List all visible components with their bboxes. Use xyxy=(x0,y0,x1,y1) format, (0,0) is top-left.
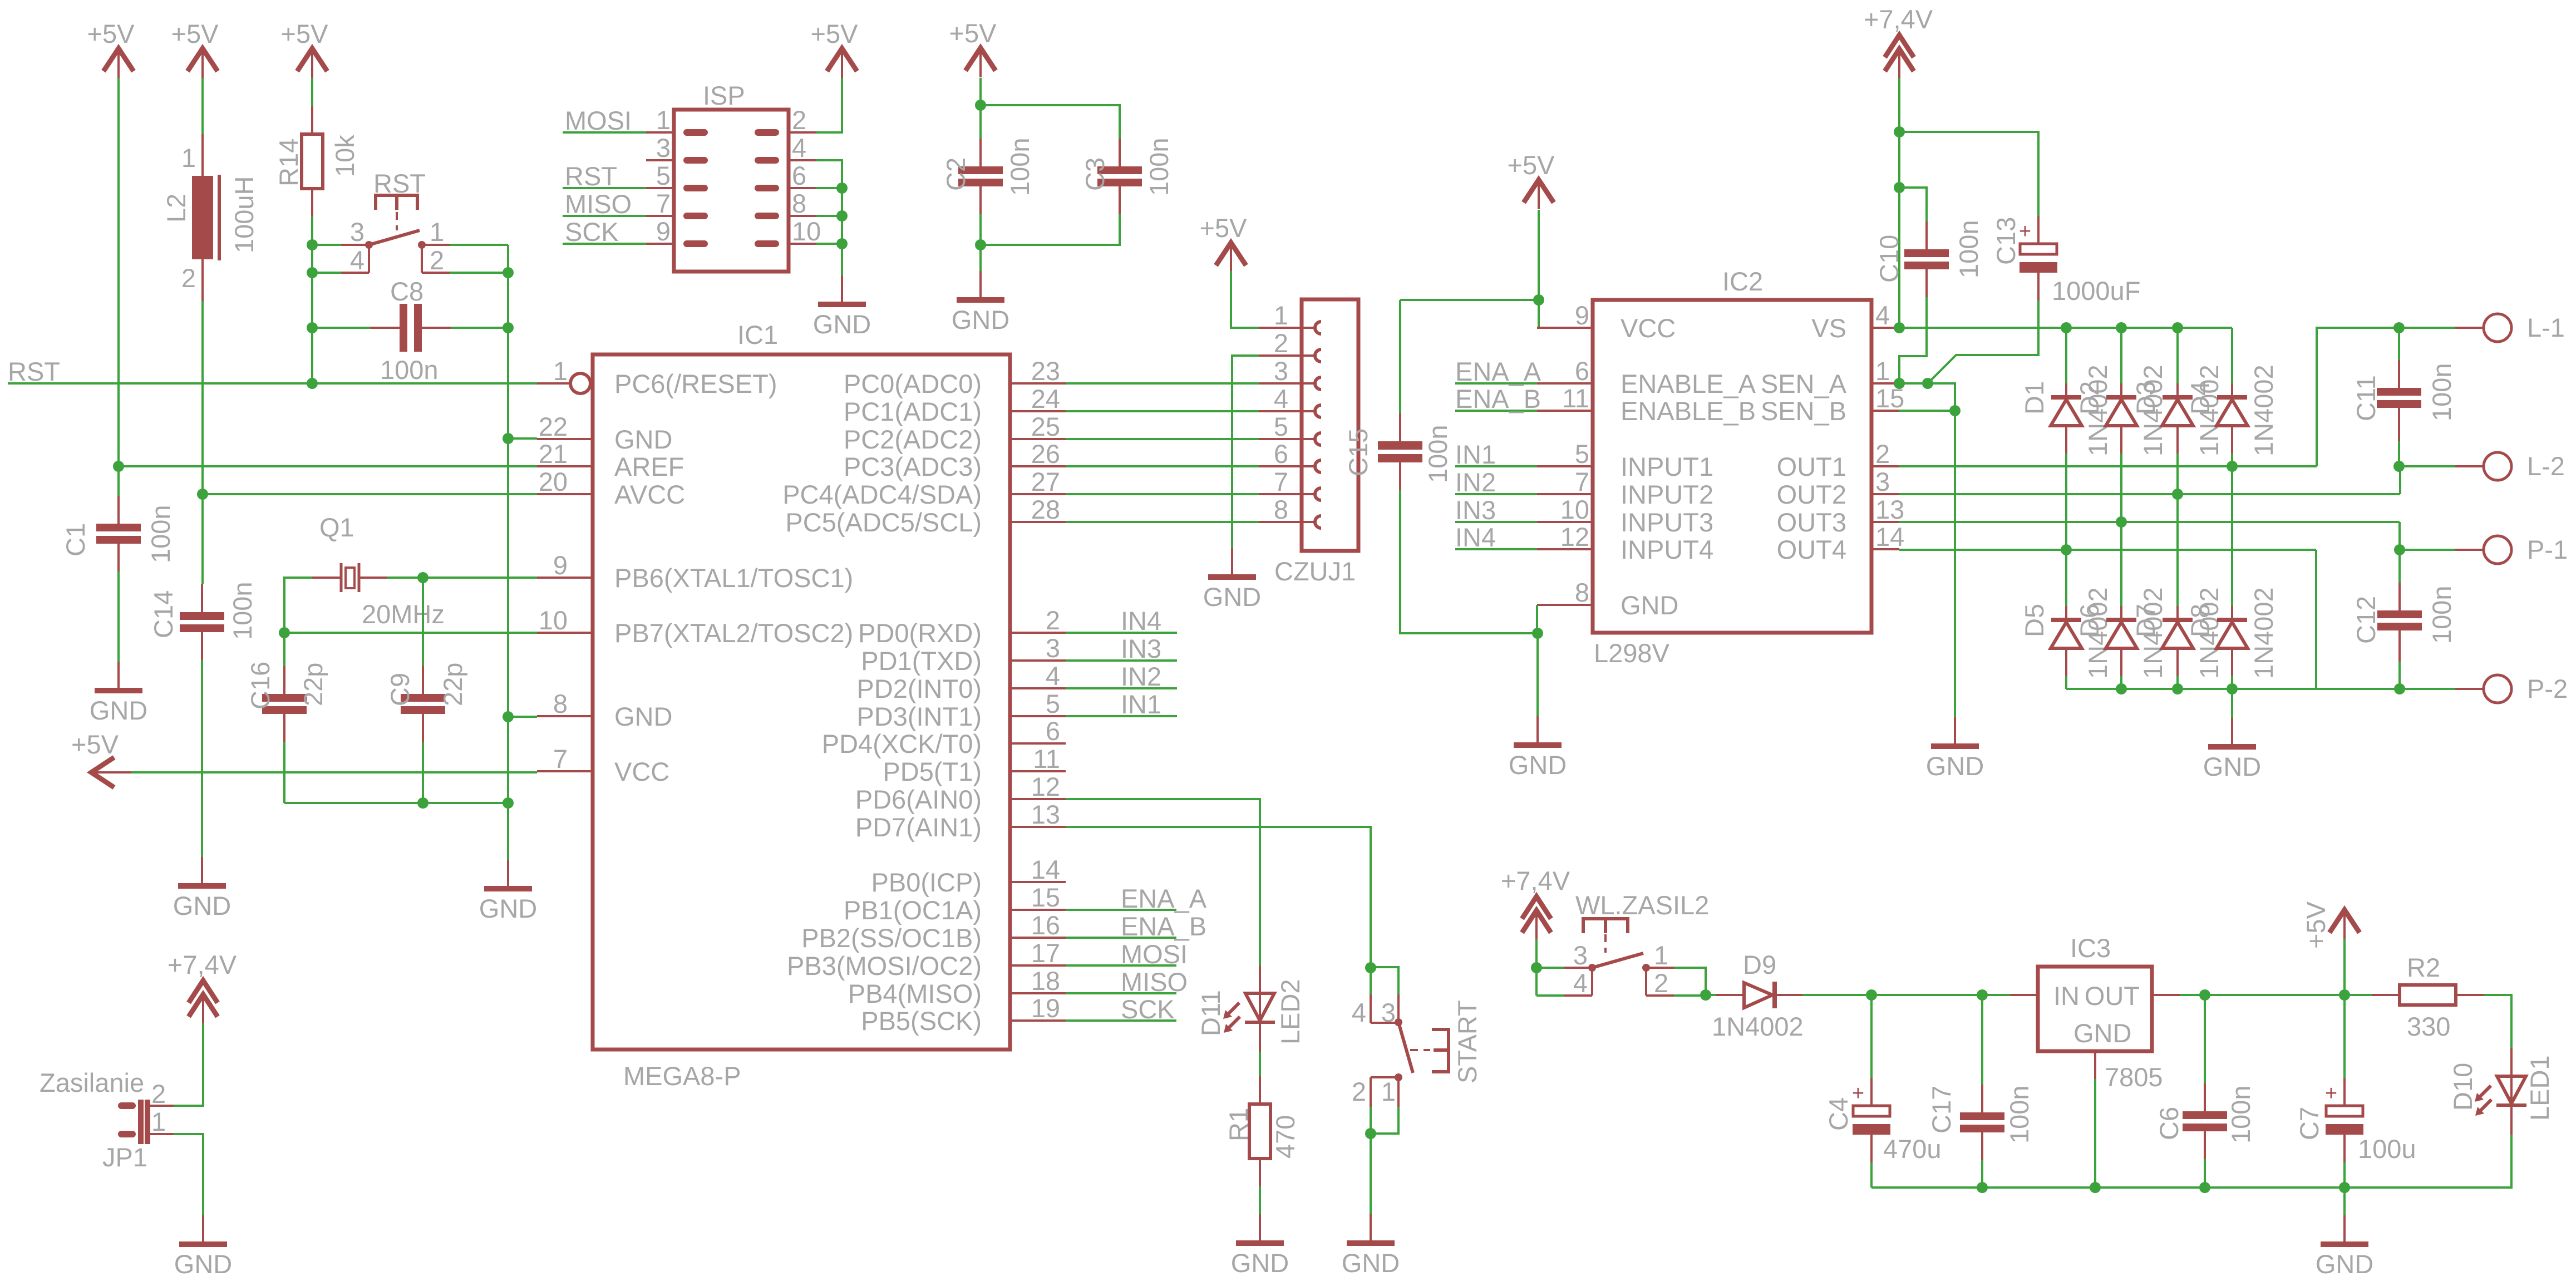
ground GND under diodes xyxy=(2203,718,2261,781)
wire PC3 to CZUJ1 pin 6 xyxy=(1066,465,1259,467)
+5V supply CZUJ1 xyxy=(1200,213,1248,272)
svg-text:21: 21 xyxy=(539,439,568,469)
svg-text:GND: GND xyxy=(1509,750,1567,780)
wire XTAL1 net xyxy=(387,577,537,579)
svg-text:R1: R1 xyxy=(1224,1108,1253,1141)
wire ground row xyxy=(1871,1186,2344,1189)
svg-text:INPUT1: INPUT1 xyxy=(1621,452,1713,481)
svg-text:100u: 100u xyxy=(2358,1134,2416,1164)
svg-text:INPUT4: INPUT4 xyxy=(1621,535,1713,564)
svg-text:330: 330 xyxy=(2407,1012,2450,1041)
svg-text:23: 23 xyxy=(1031,356,1060,386)
svg-text:PD2(INT0): PD2(INT0) xyxy=(856,674,982,703)
svg-text:4: 4 xyxy=(1573,968,1588,998)
svg-text:3: 3 xyxy=(656,133,671,162)
svg-text:MISO: MISO xyxy=(565,189,632,219)
svg-text:P-1: P-1 xyxy=(2527,535,2568,564)
svg-text:1: 1 xyxy=(1875,356,1890,386)
diode D2 1N4002 xyxy=(2106,383,2137,454)
net label IN4 xyxy=(1066,606,1177,635)
svg-text:GND: GND xyxy=(614,702,672,731)
svg-text:C12: C12 xyxy=(2351,596,2381,644)
node START top junction xyxy=(1365,962,1376,973)
wire OUT3 down to P-1 xyxy=(2400,522,2455,550)
svg-text:GND: GND xyxy=(173,891,231,920)
wire +7,4V column xyxy=(1898,78,1900,328)
svg-text:C1: C1 xyxy=(61,523,90,556)
svg-text:D5: D5 xyxy=(2020,604,2049,637)
ground GND under JP1 xyxy=(174,1215,232,1279)
svg-text:L-2: L-2 xyxy=(2527,451,2565,481)
node AREF junction xyxy=(113,461,124,472)
wire diode bottom row xyxy=(2066,688,2400,690)
wire +5V to C2 top xyxy=(979,78,982,105)
svg-text:PB5(SCK): PB5(SCK) xyxy=(861,1006,982,1036)
net label IN2 (IC2) xyxy=(1455,467,1537,497)
wire +5V to R14 xyxy=(311,78,313,106)
node OUT3 junction D2 xyxy=(2116,516,2127,528)
node output junctions xyxy=(2199,989,2210,1001)
svg-text:IN4: IN4 xyxy=(1455,523,1496,552)
IC2 pin 12 INPUT4 xyxy=(1537,522,1713,564)
node RST column junctions xyxy=(307,239,318,250)
IC1 pin 15 PB1(OC1A) xyxy=(844,883,1066,925)
node OUT2 junction D3 xyxy=(2172,489,2183,500)
IC1 pin 20 AVCC xyxy=(537,467,685,509)
IC1 pin 19 PB5(SCK) xyxy=(861,993,1066,1036)
ISP pin 9 xyxy=(646,216,705,246)
capacitor C9 22p xyxy=(385,578,467,803)
svg-text:14: 14 xyxy=(1875,522,1904,551)
svg-text:22p: 22p xyxy=(438,663,467,706)
svg-text:2: 2 xyxy=(1654,968,1668,998)
wire D3 leads xyxy=(2176,328,2179,383)
ISP pin 1 xyxy=(646,105,705,135)
svg-text:2: 2 xyxy=(792,105,806,135)
net label IN1 xyxy=(1066,689,1177,719)
capacitor C6 100n xyxy=(2154,1083,2255,1159)
IC1 pin 24 PC1(ADC1) xyxy=(844,384,1066,426)
svg-text:1N4002: 1N4002 xyxy=(1712,1012,1804,1041)
node IC2 VCC junction xyxy=(1533,294,1544,306)
svg-text:8: 8 xyxy=(1274,495,1288,524)
IC2 pin 2 OUT1 xyxy=(1777,439,1899,481)
svg-text:IN2: IN2 xyxy=(1455,467,1496,497)
svg-text:ENABLE_A: ENABLE_A xyxy=(1621,369,1756,398)
+5V supply P1 xyxy=(87,19,135,78)
node input cap junctions xyxy=(1866,989,1877,1001)
svg-text:5: 5 xyxy=(1274,412,1288,441)
svg-text:4: 4 xyxy=(1274,384,1288,413)
ground GND under CZUJ1 xyxy=(1203,548,1261,612)
svg-text:1: 1 xyxy=(553,356,568,386)
IC1 pin 6 PD4(XCK/T0) xyxy=(822,716,1066,758)
svg-text:L298V: L298V xyxy=(1594,638,1670,668)
node ISP ground junctions xyxy=(836,183,848,194)
svg-text:PB7(XTAL2/TOSC2): PB7(XTAL2/TOSC2) xyxy=(614,618,853,648)
svg-text:18: 18 xyxy=(1031,966,1060,996)
wire LED1 to ground row xyxy=(2344,1135,2511,1188)
IC2 pin 4 VS xyxy=(1811,300,1899,343)
svg-text:100n: 100n xyxy=(2226,1085,2255,1144)
svg-text:100n: 100n xyxy=(146,505,175,563)
svg-text:Q1: Q1 xyxy=(319,513,354,542)
capacitor C10 100n xyxy=(1874,220,1983,297)
capacitor C2 100n xyxy=(941,137,1035,214)
inductor L2 xyxy=(161,134,259,301)
svg-text:2: 2 xyxy=(1274,328,1288,358)
svg-text:4: 4 xyxy=(1875,300,1890,330)
svg-text:GND: GND xyxy=(1621,590,1678,620)
capacitor C11 100n xyxy=(2351,328,2456,466)
svg-text:GND: GND xyxy=(90,696,147,725)
svg-text:10: 10 xyxy=(539,605,568,635)
wire VS row to diode tops xyxy=(1899,327,2232,329)
IC1 pin 7 VCC xyxy=(537,744,669,786)
svg-text:D11: D11 xyxy=(1196,990,1225,1036)
svg-text:VCC: VCC xyxy=(614,757,669,786)
svg-text:10: 10 xyxy=(792,216,821,246)
svg-text:OUT2: OUT2 xyxy=(1777,480,1846,509)
wire C10 bottom to SEN_A xyxy=(1899,297,1927,383)
svg-text:12: 12 xyxy=(1560,522,1589,551)
diode D7 1N4002 xyxy=(2162,606,2193,676)
svg-text:470u: 470u xyxy=(1883,1134,1942,1164)
IC1 pin 23 PC0(ADC0) xyxy=(844,356,1066,398)
wire R1 to ground xyxy=(1259,1186,1261,1214)
svg-text:IN3: IN3 xyxy=(1121,634,1161,663)
IC2 pin 11 ENABLE_B xyxy=(1537,383,1756,426)
diode D6 1N4002 xyxy=(2106,606,2137,676)
wire ground row to GND symbol xyxy=(2343,1188,2346,1215)
svg-text:SCK: SCK xyxy=(1121,994,1175,1024)
ground GND under C14 xyxy=(173,857,231,920)
net label IN3 xyxy=(1066,634,1177,663)
svg-text:+5V: +5V xyxy=(1508,150,1555,180)
svg-text:GND: GND xyxy=(479,894,537,923)
svg-text:5: 5 xyxy=(656,161,671,190)
svg-text:D2: D2 xyxy=(2075,381,2104,415)
IC1 pin 27 PC4(ADC4/SDA) xyxy=(782,467,1066,509)
svg-text:10: 10 xyxy=(1560,495,1589,524)
svg-text:4: 4 xyxy=(792,133,806,162)
node C2 bottom junction xyxy=(975,239,986,250)
svg-text:IN2: IN2 xyxy=(1121,662,1161,691)
wire IC3 GND to ground row xyxy=(2094,1079,2096,1188)
svg-text:C3: C3 xyxy=(1080,157,1110,191)
capacitor C17 100n xyxy=(1927,1085,2034,1160)
svg-text:100n: 100n xyxy=(380,355,439,385)
svg-text:PC1(ADC1): PC1(ADC1) xyxy=(844,397,982,426)
IC1 pin 28 PC5(ADC5/SCL) xyxy=(785,495,1066,537)
svg-text:IC2: IC2 xyxy=(1722,267,1763,296)
net label MOSI (ISP) xyxy=(563,106,646,135)
IC2 pin 3 OUT2 xyxy=(1777,467,1899,509)
IC1 pin 13 PD7(AIN1) xyxy=(855,800,1066,842)
svg-text:1: 1 xyxy=(1274,300,1288,330)
wire PC0 to CZUJ1 pin 3 xyxy=(1066,382,1259,385)
wire OUT1 up to L-1 xyxy=(2317,328,2455,466)
+7,4V supply JP1 xyxy=(168,950,237,1023)
IC2 pin 13 OUT3 xyxy=(1777,495,1905,537)
capacitor C14 100n xyxy=(149,582,257,660)
svg-text:D7: D7 xyxy=(2131,604,2160,637)
svg-text:13: 13 xyxy=(1875,495,1904,524)
ground GND right column xyxy=(479,860,537,923)
svg-text:RST: RST xyxy=(8,357,60,386)
svg-text:10k: 10k xyxy=(330,135,359,177)
IC1 pin 25 PC2(ADC2) xyxy=(844,412,1066,454)
net label RST (ISP) xyxy=(563,161,646,191)
capacitor C1 100n xyxy=(61,496,175,571)
wire crystal caps ground xyxy=(284,802,508,804)
svg-text:1: 1 xyxy=(656,105,671,135)
svg-text:C16: C16 xyxy=(245,662,275,710)
svg-text:GND: GND xyxy=(614,425,672,454)
ISP pin 2 xyxy=(758,105,816,135)
svg-text:14: 14 xyxy=(1031,855,1060,884)
wire D2 leads xyxy=(2120,328,2122,383)
svg-text:GND: GND xyxy=(1231,1248,1289,1278)
svg-text:LED1: LED1 xyxy=(2525,1055,2554,1121)
svg-text:+5V: +5V xyxy=(2301,901,2331,949)
wire IC2 GND pin to ground xyxy=(1536,605,1538,633)
capacitor C8 xyxy=(312,277,508,385)
diode D8 1N4002 xyxy=(2217,606,2248,676)
IC2 pin 5 INPUT1 xyxy=(1537,439,1713,481)
wire R2 to LED1 xyxy=(2484,995,2511,1052)
net label IN4 (IC2) xyxy=(1455,523,1537,552)
IC1 pin 14 PB0(ICP) xyxy=(871,855,1066,897)
connector ISP header xyxy=(674,110,789,272)
wire ISP pins 6 8 10 to ground column xyxy=(816,187,842,189)
svg-text:D6: D6 xyxy=(2075,604,2104,637)
wire CZUJ1 pin 2 to ground xyxy=(1232,356,1259,548)
+5V supply P3 xyxy=(281,19,329,78)
LED D10 xyxy=(2448,1048,2554,1135)
svg-text:+7,4V: +7,4V xyxy=(1501,866,1570,895)
wire D8 leads xyxy=(2231,466,2233,606)
wire +5V to IC2 VCC xyxy=(1537,210,1539,328)
svg-text:ENA_B: ENA_B xyxy=(1455,384,1541,413)
IC2 pin 10 INPUT3 xyxy=(1537,495,1713,537)
svg-text:100n: 100n xyxy=(2004,1085,2034,1144)
svg-text:1000uF: 1000uF xyxy=(2052,276,2140,306)
wire D5 leads xyxy=(2065,549,2067,606)
node OUT1 junction D4 xyxy=(2227,461,2238,472)
IC2 pin 14 OUT4 xyxy=(1777,522,1905,564)
node RST-R14 junction xyxy=(307,378,318,389)
svg-text:C10: C10 xyxy=(1874,235,1904,283)
svg-text:ISP: ISP xyxy=(703,81,745,110)
svg-text:LED2: LED2 xyxy=(1275,979,1305,1044)
node WL junction xyxy=(1531,962,1542,973)
svg-text:22: 22 xyxy=(539,412,568,441)
wire +5V to L2 xyxy=(201,78,204,134)
wire RST switch right column to GND net xyxy=(507,245,509,860)
svg-text:MOSI: MOSI xyxy=(1121,939,1188,969)
svg-text:IN1: IN1 xyxy=(1121,689,1161,719)
wire OUT2 up to L-2 xyxy=(2400,466,2455,494)
svg-text:IC3: IC3 xyxy=(2070,933,2111,963)
wire OUT3 row xyxy=(1899,521,2400,523)
node C12 top junction xyxy=(2394,544,2405,555)
svg-text:C2: C2 xyxy=(941,157,971,191)
svg-text:IN1: IN1 xyxy=(1455,440,1496,469)
svg-text:PC5(ADC5/SCL): PC5(ADC5/SCL) xyxy=(785,508,982,537)
svg-text:3: 3 xyxy=(1875,467,1890,496)
wire ISP ground column xyxy=(816,160,842,275)
wire L2 to AVCC xyxy=(201,301,204,494)
svg-text:RST: RST xyxy=(565,161,617,191)
svg-text:VS: VS xyxy=(1811,313,1846,343)
IC1 pin 16 PB2(SS/OC1B) xyxy=(801,910,1066,953)
+5V supply arrow IC3 xyxy=(2301,901,2360,949)
connector P-1 xyxy=(2455,535,2568,564)
svg-text:IN3: IN3 xyxy=(1455,495,1496,525)
switch WL.ZASIL2 xyxy=(1536,890,1709,998)
svg-text:AREF: AREF xyxy=(614,452,684,481)
net label SCK (ISP) xyxy=(563,217,646,247)
svg-text:C17: C17 xyxy=(1927,1086,1956,1134)
svg-text:4: 4 xyxy=(350,245,365,275)
svg-text:+: + xyxy=(2019,220,2031,243)
connector L-2 xyxy=(2455,451,2565,481)
net label ENA_A (IC2) xyxy=(1455,357,1541,386)
IC1 pin 5 PD3(INT1) xyxy=(856,689,1066,731)
+7,4V supply WL xyxy=(1501,866,1570,939)
svg-text:20: 20 xyxy=(539,467,568,496)
svg-text:6: 6 xyxy=(1274,439,1288,469)
wire OUT4 down to bottom row xyxy=(2315,550,2317,689)
IC1 pin 12 PD6(AIN0) xyxy=(855,772,1066,814)
svg-text:28: 28 xyxy=(1031,495,1060,524)
+5V supply ISP xyxy=(811,19,859,78)
svg-text:P-2: P-2 xyxy=(2527,674,2568,703)
svg-text:PB0(ICP): PB0(ICP) xyxy=(871,868,982,897)
net label ENA_B (IC2) xyxy=(1455,384,1541,413)
+5V supply P2 xyxy=(171,19,219,78)
svg-text:3: 3 xyxy=(1381,998,1396,1027)
wire C2-C3 top link xyxy=(981,105,1120,139)
svg-text:2: 2 xyxy=(151,1079,166,1108)
node ground row junctions xyxy=(1977,1182,1988,1193)
svg-text:8: 8 xyxy=(1575,578,1589,607)
net label IN3 (IC2) xyxy=(1455,495,1537,525)
svg-text:MEGA8-P: MEGA8-P xyxy=(623,1061,741,1091)
svg-text:PB4(MISO): PB4(MISO) xyxy=(848,979,982,1008)
capacitor C13 1000uF xyxy=(1991,216,2140,306)
svg-text:GND: GND xyxy=(1342,1248,1400,1278)
svg-text:C14: C14 xyxy=(149,590,178,638)
svg-text:CZUJ1: CZUJ1 xyxy=(1274,556,1356,586)
svg-text:100n: 100n xyxy=(1954,220,1983,278)
net label ENA_B xyxy=(1066,912,1206,941)
svg-text:4: 4 xyxy=(1352,998,1366,1027)
svg-text:4: 4 xyxy=(1046,661,1060,691)
wire PC2 to CZUJ1 pin 5 xyxy=(1066,438,1259,440)
IC1 pin 2 PD0(RXD) xyxy=(858,605,1066,648)
wire SEN to ground xyxy=(1954,411,1956,717)
svg-text:PC3(ADC3): PC3(ADC3) xyxy=(844,452,982,481)
svg-text:ENABLE_B: ENABLE_B xyxy=(1621,396,1756,426)
node SEN_A junctions xyxy=(1894,378,1905,389)
IC2 pin 7 INPUT2 xyxy=(1537,467,1713,509)
wire second row to C10 xyxy=(1899,188,1927,221)
svg-text:GND: GND xyxy=(813,309,871,339)
svg-text:+5V: +5V xyxy=(71,730,119,759)
svg-text:SEN_B: SEN_B xyxy=(1761,396,1846,426)
svg-text:9: 9 xyxy=(1575,300,1589,330)
svg-text:PC2(ADC2): PC2(ADC2) xyxy=(844,425,982,454)
svg-text:PC6(/RESET): PC6(/RESET) xyxy=(614,369,777,398)
svg-text:26: 26 xyxy=(1031,439,1060,469)
ISP pin 6 xyxy=(758,161,816,190)
IC1 pin 22 GND xyxy=(537,412,672,454)
svg-text:PD7(AIN1): PD7(AIN1) xyxy=(855,812,982,842)
wire D4 leads xyxy=(2231,328,2233,383)
capacitor C3 100n xyxy=(1080,137,1174,214)
svg-text:100n: 100n xyxy=(1144,137,1174,196)
svg-text:C4: C4 xyxy=(1824,1097,1853,1131)
svg-text:IN4: IN4 xyxy=(1121,606,1161,635)
driver IC2 L298V xyxy=(1593,300,1871,633)
ISP pin 5 xyxy=(646,161,705,190)
node START bottom junction xyxy=(1365,1128,1376,1139)
svg-text:2: 2 xyxy=(1875,439,1890,469)
node bottom row junctions xyxy=(2116,683,2127,694)
wire D6 leads xyxy=(2120,522,2122,606)
svg-text:PC0(ADC0): PC0(ADC0) xyxy=(844,369,982,398)
svg-text:2: 2 xyxy=(181,263,196,293)
svg-text:1: 1 xyxy=(1381,1077,1396,1106)
pushbutton START xyxy=(1352,967,1482,1134)
svg-text:6: 6 xyxy=(1046,716,1060,746)
wire AREF xyxy=(119,465,537,467)
svg-text:16: 16 xyxy=(1031,910,1060,940)
svg-text:C15: C15 xyxy=(1343,428,1373,476)
svg-text:3: 3 xyxy=(1274,356,1288,386)
wire +7,4V to switch xyxy=(1535,939,1538,968)
wire XTAL1 to C16 column xyxy=(284,578,312,633)
svg-text:GND: GND xyxy=(174,1249,232,1279)
IC1 pin 4 PD2(INT0) xyxy=(856,661,1066,703)
wire D1 leads xyxy=(2065,328,2067,383)
svg-text:100n: 100n xyxy=(1005,137,1035,196)
node right column junctions xyxy=(503,267,514,278)
wire C13 bottom diagonal to SEN_A xyxy=(1928,300,2038,383)
svg-text:9: 9 xyxy=(656,216,671,246)
svg-text:2: 2 xyxy=(430,245,444,275)
svg-text:GND: GND xyxy=(1926,751,1984,781)
ground GND regulator xyxy=(2316,1215,2373,1279)
svg-text:11: 11 xyxy=(1562,383,1589,413)
svg-text:9: 9 xyxy=(553,550,568,580)
svg-text:PB3(MOSI/OC2): PB3(MOSI/OC2) xyxy=(787,951,982,981)
node OUT4 junction D1 xyxy=(2061,544,2072,555)
IC1 pin 9 PB6(XTAL1/TOSC1) xyxy=(537,550,853,593)
wire LED2 to R1 xyxy=(1259,1052,1261,1076)
wire C2 leads xyxy=(979,105,982,139)
wire C6 leads xyxy=(2204,995,2206,1083)
ground GND under IC2 xyxy=(1509,716,1567,780)
svg-text:ENA_A: ENA_A xyxy=(1455,357,1541,386)
wire ISP pin2 to +5V xyxy=(816,78,842,132)
IC1 pin 18 PB4(MISO) xyxy=(848,966,1066,1008)
LED D11 xyxy=(1196,965,1305,1052)
svg-text:PB6(XTAL1/TOSC1): PB6(XTAL1/TOSC1) xyxy=(614,563,853,593)
wire PC1 to CZUJ1 pin 4 xyxy=(1066,410,1259,412)
